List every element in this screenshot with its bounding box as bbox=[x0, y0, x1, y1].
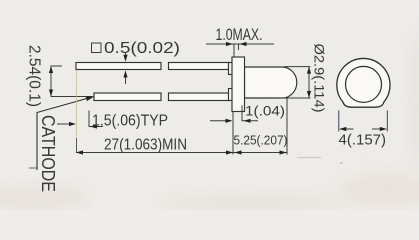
top lead (anode) segment 2 bbox=[169, 63, 229, 70]
bottom lead (cathode) segment 1 bbox=[94, 93, 161, 101]
dimension 2.9(.114) dome diameter bbox=[277, 67, 311, 98]
svg-text:CATHODE: CATHODE bbox=[38, 115, 58, 192]
bottom lead inner tab step bbox=[229, 89, 233, 101]
LED body with dome bbox=[245, 67, 297, 98]
svg-text:1(.04): 1(.04) bbox=[245, 103, 285, 119]
extension line body right bbox=[286, 98, 288, 155]
faint scan artifact dash bbox=[297, 157, 321, 159]
extension line flange left bbox=[232, 112, 234, 155]
top lead (anode) segment 1 bbox=[76, 63, 161, 70]
dimension line 5.25(.207) bbox=[234, 152, 288, 154]
svg-text:0.5(0.02): 0.5(0.02) bbox=[104, 40, 180, 57]
svg-text:4(.157): 4(.157) bbox=[339, 132, 387, 149]
svg-text:27(1.063)MIN: 27(1.063)MIN bbox=[104, 137, 187, 154]
dimension 1.5(.06)TYP bbox=[57, 111, 103, 127]
bottom lead (cathode) segment 2 bbox=[169, 93, 229, 101]
cathode leader line bbox=[29, 97, 94, 171]
extension line (scanned faint) from top lead end bbox=[76, 70, 78, 140]
front view inner circle bbox=[346, 66, 382, 102]
dimension 1.0MAX flange bbox=[206, 44, 274, 57]
svg-text:1.0MAX.: 1.0MAX. bbox=[216, 26, 263, 44]
top lead inner tab step bbox=[229, 63, 233, 75]
svg-text:5.25(.207): 5.25(.207) bbox=[234, 133, 288, 148]
faint scan speck bbox=[340, 163, 343, 165]
svg-text:1.5(.06)TYP: 1.5(.06)TYP bbox=[92, 113, 168, 130]
dimension 1(.04) flange thickness bbox=[210, 106, 258, 121]
epoxy flange bbox=[232, 57, 245, 112]
dimension 4(.157) front view width bbox=[339, 111, 388, 132]
front view outer circle with flat bottom bbox=[337, 58, 390, 107]
dimension line 27(1.063)MIN bbox=[76, 152, 233, 154]
svg-text:Ø2.9(.114): Ø2.9(.114) bbox=[312, 44, 328, 113]
svg-text:2.54(0.1): 2.54(0.1) bbox=[26, 45, 43, 107]
dimension 2.54(0.1) lead spacing bracket bbox=[51, 66, 92, 97]
dimension 0.5(0.02) square lead thickness bbox=[92, 43, 126, 84]
